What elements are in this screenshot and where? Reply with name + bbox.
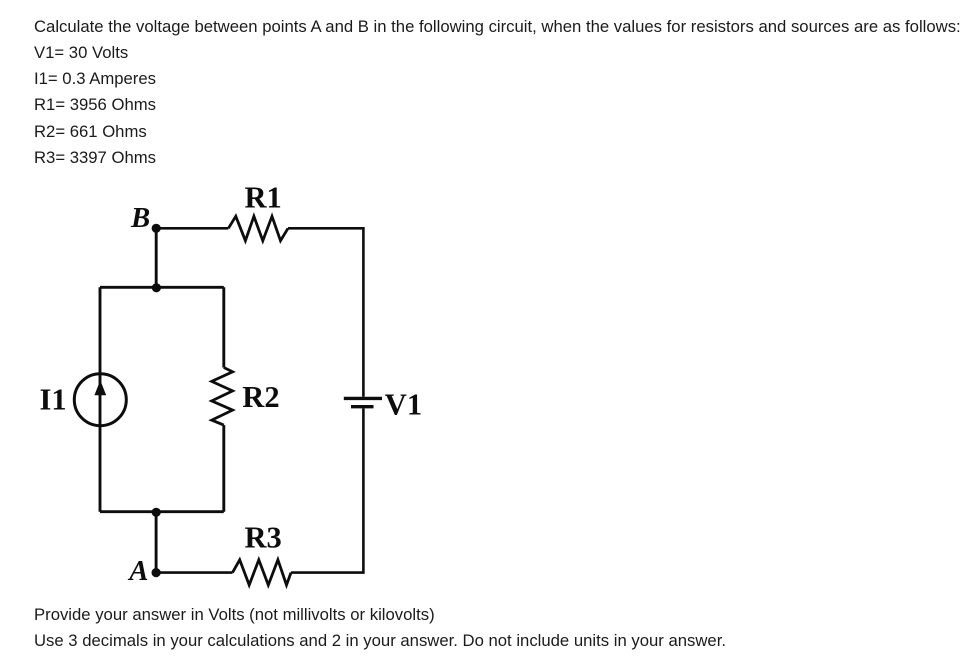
wire inner box bottom bbox=[100, 510, 224, 513]
svg-text:R2: R2 bbox=[242, 380, 279, 414]
wire inner box right lower bbox=[222, 425, 225, 512]
junction node bottom bbox=[152, 508, 161, 517]
svg-text:V1: V1 bbox=[385, 388, 422, 422]
wire B to R1 left bbox=[156, 227, 228, 230]
wire B down to inner box top bbox=[155, 228, 158, 287]
wire inner box right upper bbox=[222, 287, 225, 367]
node A bbox=[152, 568, 161, 577]
wire inner box left (through current source) bbox=[99, 287, 102, 511]
wire A up to inner box bottom bbox=[155, 512, 158, 572]
node B bbox=[152, 224, 161, 233]
resistor R3 bbox=[233, 560, 292, 585]
wire R3 left to node A bbox=[156, 571, 232, 574]
junction node top bbox=[152, 283, 161, 292]
current source I1 arrowhead bbox=[94, 380, 106, 395]
svg-text:A: A bbox=[127, 555, 148, 587]
svg-text:B: B bbox=[130, 202, 150, 234]
wire battery down to bottom-right corner to R3 right bbox=[291, 408, 363, 572]
battery V1 long plate bbox=[344, 397, 382, 400]
wire R1 right to top-right corner down to battery bbox=[288, 228, 363, 396]
current source I1 circle bbox=[74, 374, 126, 426]
svg-text:I1: I1 bbox=[40, 383, 67, 417]
resistor R2 bbox=[212, 368, 233, 426]
svg-text:R3: R3 bbox=[245, 521, 282, 555]
battery V1 short plate bbox=[351, 405, 374, 408]
wire inner box top bbox=[100, 286, 224, 289]
resistor R1 bbox=[228, 216, 288, 240]
svg-text:R1: R1 bbox=[245, 181, 282, 215]
